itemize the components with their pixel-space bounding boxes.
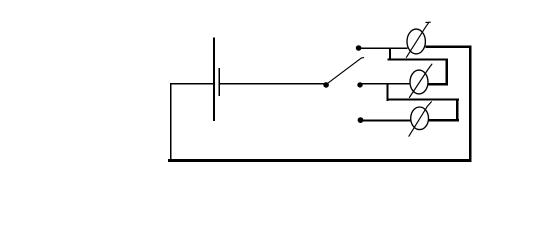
node contact 2 — [357, 82, 362, 87]
lamp L1 slash — [406, 22, 430, 57]
switch S1 blade — [327, 58, 364, 84]
wire contact 1 to lamp L1 — [360, 48, 407, 50]
switch S1 pivot node — [323, 82, 329, 88]
lamp L2 — [410, 70, 428, 94]
node contact 3 — [358, 117, 364, 123]
wire lamp L1 to right rail — [425, 46, 471, 48]
wire contact 3 to lamp L3 — [363, 120, 412, 122]
wire lamp L2 return to row 1 — [387, 49, 448, 86]
wire battery positive lead to switch — [220, 83, 324, 84]
wire contact 2 to lamp L2 — [362, 83, 411, 85]
wire left rail — [170, 83, 172, 162]
wire battery negative lead — [171, 83, 214, 84]
wire lamp L3 return to row 2 — [387, 84, 459, 121]
lamp L3 — [411, 107, 429, 130]
lamp L2 slash — [409, 64, 432, 97]
node contact 1 — [356, 45, 362, 51]
lamp L1 — [407, 29, 425, 54]
wire bottom rail — [168, 159, 472, 162]
lamp L3 slash — [409, 102, 432, 136]
battery B1 short plate — [219, 68, 220, 96]
wire right rail — [469, 46, 472, 162]
battery B1 long plate — [213, 37, 215, 121]
